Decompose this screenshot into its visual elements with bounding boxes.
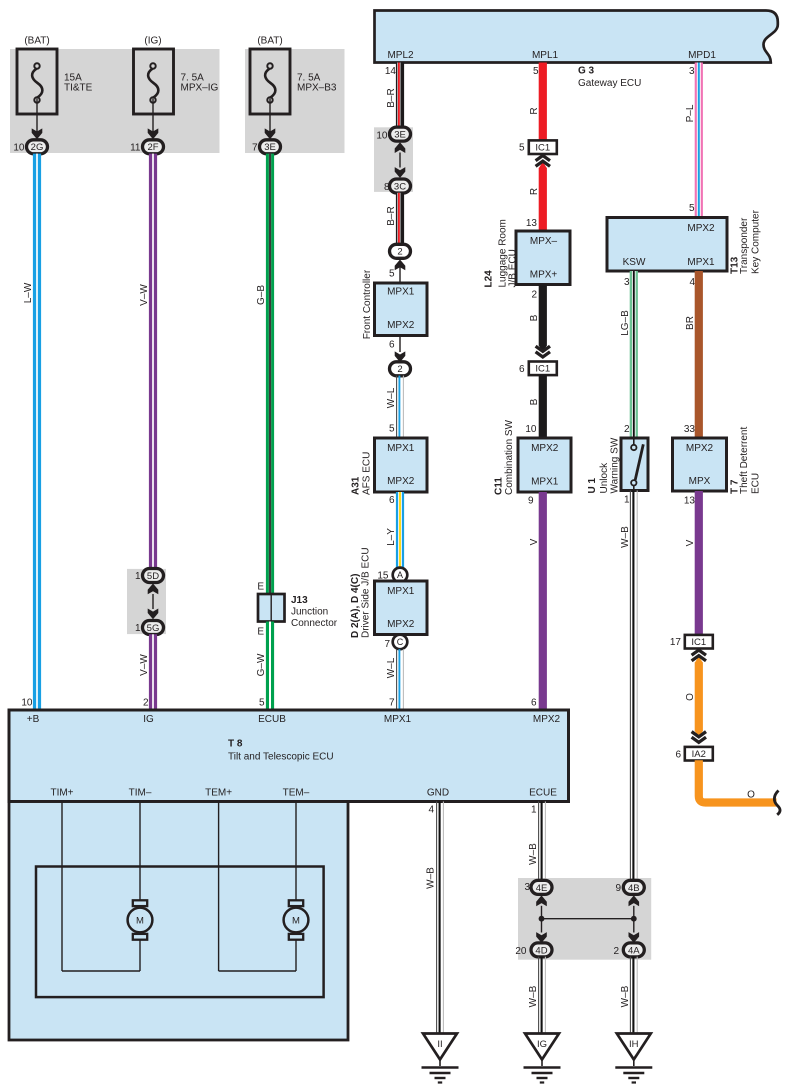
svg-text:1: 1 xyxy=(531,805,537,816)
pin 4 (T13 MPX1) xyxy=(689,277,695,288)
wire B (IC1 to C11) xyxy=(539,375,547,438)
label E above J13 xyxy=(257,582,264,593)
pin 6 (A31) xyxy=(389,495,395,506)
svg-text:Front Controller: Front Controller xyxy=(362,269,373,339)
svg-text:MPX2: MPX2 xyxy=(687,223,715,234)
svg-text:10: 10 xyxy=(21,698,33,709)
junction connector J13 xyxy=(258,594,285,622)
svg-text:1: 1 xyxy=(135,623,141,634)
svg-text:MPX2: MPX2 xyxy=(387,619,415,630)
fuse 15A TI&TE xyxy=(17,49,57,114)
svg-text:R: R xyxy=(529,107,540,114)
svg-text:W–L: W–L xyxy=(386,657,397,678)
svg-text:ECUB: ECUB xyxy=(258,714,286,725)
svg-text:R: R xyxy=(529,188,540,195)
svg-text:IA2: IA2 xyxy=(692,749,706,760)
svg-text:17: 17 xyxy=(670,637,682,648)
svg-text:MPX2: MPX2 xyxy=(387,476,415,487)
label E below J13 xyxy=(257,627,264,638)
svg-text:B: B xyxy=(529,314,540,321)
ground II xyxy=(422,1034,459,1083)
label L-Y xyxy=(386,528,397,546)
pin 33 (T7) xyxy=(684,424,696,435)
svg-text:W–B: W–B xyxy=(426,867,437,889)
fuse block background band (left) xyxy=(10,49,220,153)
label C11 Combination SW xyxy=(494,419,516,495)
label A31 AFS ECU xyxy=(351,452,373,495)
svg-text:LG–B: LG–B xyxy=(620,310,631,336)
pin 10 (C11) xyxy=(525,424,537,435)
svg-text:MPX1: MPX1 xyxy=(384,714,412,725)
ground IG xyxy=(524,1034,561,1083)
svg-text:4: 4 xyxy=(689,277,695,288)
wire L-Y (A31 to circle A) xyxy=(396,492,404,568)
svg-text:TIM+: TIM+ xyxy=(50,788,73,799)
continuation squiggle (O wire) xyxy=(774,791,780,815)
wire B-R (3C to oval 2) xyxy=(399,193,400,245)
svg-text:Theft Deterrent: Theft Deterrent xyxy=(739,427,750,494)
label B-R lower xyxy=(386,206,397,225)
label T8 Tilt and Telescopic ECU xyxy=(228,739,334,763)
link 4E to 4D with arrows xyxy=(536,895,547,943)
label 15A TI&TE xyxy=(64,73,93,94)
wire W-B (4A to ground IH) xyxy=(630,957,637,1034)
svg-text:5G: 5G xyxy=(147,623,160,634)
svg-text:5: 5 xyxy=(389,424,395,435)
label W-B (GND) xyxy=(426,867,437,889)
label V (column 5) xyxy=(529,538,540,545)
pin 7 (circle C) xyxy=(384,639,390,650)
svg-text:Key Computer: Key Computer xyxy=(751,209,762,274)
svg-text:M: M xyxy=(136,916,144,927)
wire G-B (3E to J13) xyxy=(266,154,274,594)
svg-text:MPX–IG: MPX–IG xyxy=(181,83,219,94)
pin 11 (2F) xyxy=(130,142,141,153)
svg-text:MPX2: MPX2 xyxy=(686,443,714,454)
svg-text:C: C xyxy=(397,637,404,647)
svg-text:MPX+: MPX+ xyxy=(530,270,558,281)
svg-text:J13: J13 xyxy=(291,595,308,606)
wire O (chevrons to IA2) xyxy=(695,662,703,737)
pin 6 (Front Controller) xyxy=(389,340,395,351)
svg-text:4B: 4B xyxy=(628,883,640,894)
svg-text:4E: 4E xyxy=(536,883,548,894)
svg-text:3E: 3E xyxy=(394,130,406,141)
svg-text:10: 10 xyxy=(525,424,537,435)
pin 7 (3E fuse) xyxy=(252,142,258,153)
svg-text:MPX1: MPX1 xyxy=(387,443,415,454)
svg-text:IC1: IC1 xyxy=(691,637,706,648)
svg-text:13: 13 xyxy=(526,218,538,229)
svg-text:G–W: G–W xyxy=(256,653,267,676)
svg-text:Combination SW: Combination SW xyxy=(504,419,515,495)
pin 3 (T13 KSW) xyxy=(624,277,630,288)
ground IH xyxy=(615,1034,652,1083)
label B-R upper xyxy=(386,88,397,107)
pin 1 (U1) xyxy=(624,495,630,506)
label B upper xyxy=(529,314,540,321)
label W-B (4A) xyxy=(620,985,631,1007)
wire W-L (circle C to T8 MPX1) xyxy=(397,649,404,711)
chevrons down into IA2 xyxy=(692,732,706,743)
svg-text:G–B: G–B xyxy=(256,285,267,305)
wire TEM+ to motor M2 xyxy=(219,802,296,972)
arrows between 3E and 3C xyxy=(395,142,406,178)
svg-text:B–R: B–R xyxy=(386,206,397,225)
label R lower xyxy=(529,188,540,195)
pin 10 (3E) xyxy=(376,130,388,141)
svg-text:L24: L24 xyxy=(484,270,495,288)
svg-text:3: 3 xyxy=(689,66,695,77)
label T13 Transponder Key Computer xyxy=(730,209,762,274)
chevrons up into IC1 right xyxy=(692,650,706,663)
svg-text:7: 7 xyxy=(389,698,395,709)
svg-text:10: 10 xyxy=(13,142,25,153)
connector 4D xyxy=(531,943,552,957)
pin 1 (5D) xyxy=(135,571,141,582)
ECU C11 Combination SW box xyxy=(518,438,571,492)
svg-text:3C: 3C xyxy=(394,181,406,192)
label W-L upper xyxy=(386,387,397,408)
connector 2 (lower) xyxy=(390,362,411,376)
chevrons up into IC1 xyxy=(536,156,550,169)
svg-text:A31: A31 xyxy=(351,476,362,495)
label W-L lower xyxy=(386,657,397,678)
connector IC1 (right) xyxy=(685,635,713,649)
wire V (C11 to T8 MPX2) xyxy=(539,492,547,711)
svg-text:4A: 4A xyxy=(628,945,640,956)
svg-text:Warning SW: Warning SW xyxy=(610,437,621,493)
svg-text:ECUE: ECUE xyxy=(529,788,557,799)
connector 4B xyxy=(623,880,644,894)
svg-text:TEM–: TEM– xyxy=(283,788,310,799)
svg-text:5: 5 xyxy=(389,269,395,280)
ECU A31 AFS ECU box xyxy=(375,438,428,492)
label O vertical xyxy=(685,693,696,701)
svg-text:(BAT): (BAT) xyxy=(24,36,49,47)
pin 5 (G3 MPL1) xyxy=(533,66,539,77)
svg-text:6: 6 xyxy=(531,698,537,709)
svg-text:20: 20 xyxy=(515,946,527,957)
wire fuse2 to 2F with arrow xyxy=(148,99,159,140)
pin 5 (T8 ECUB) xyxy=(259,698,265,709)
wire V-W (2F to 5D) xyxy=(149,154,157,569)
svg-text:4D: 4D xyxy=(535,945,547,956)
svg-text:TIM–: TIM– xyxy=(129,788,152,799)
label LG-B xyxy=(620,310,631,336)
pin 4 (T8 GND) xyxy=(428,805,434,816)
label P-L xyxy=(685,104,696,122)
svg-text:C11: C11 xyxy=(494,477,505,495)
pin 6 (IC1 mid) xyxy=(519,364,525,375)
ECU T13 Transponder Key Computer box xyxy=(607,218,727,272)
svg-text:MPX1: MPX1 xyxy=(531,477,559,488)
svg-text:2: 2 xyxy=(143,698,149,709)
connector 2G xyxy=(27,140,48,154)
svg-text:IH: IH xyxy=(629,1039,639,1050)
svg-text:W–L: W–L xyxy=(386,387,397,408)
inner motor assembly rect xyxy=(36,867,324,998)
svg-text:10: 10 xyxy=(376,130,388,141)
label W-B (4D) xyxy=(528,985,539,1007)
svg-text:6: 6 xyxy=(389,495,395,506)
motor M2 (telescopic) xyxy=(284,900,309,939)
svg-text:D 2(A), D 4(C): D 2(A), D 4(C) xyxy=(350,574,361,638)
svg-text:J/B ECU: J/B ECU xyxy=(508,249,519,287)
wire V (T7 MPX to IC1) xyxy=(695,491,703,635)
label G-B xyxy=(256,285,267,305)
svg-text:Gateway ECU: Gateway ECU xyxy=(578,78,641,89)
ECU G3 Gateway ECU box xyxy=(375,11,778,63)
wire with down arrow (FC to oval 2) xyxy=(395,336,406,363)
pin 10 (2G) xyxy=(13,142,25,153)
pin 14 (G3 MPL2) xyxy=(385,66,397,77)
pin 5 (A31) xyxy=(389,424,395,435)
fuse 7.5A MPX-B3 xyxy=(250,49,290,114)
svg-text:MPX–B3: MPX–B3 xyxy=(297,83,337,94)
label 7.5A MPX-IG xyxy=(181,73,219,94)
svg-text:6: 6 xyxy=(675,749,681,760)
connector IA2 xyxy=(685,747,713,761)
svg-text:5: 5 xyxy=(689,203,695,214)
connector 5D xyxy=(143,569,164,583)
label R upper xyxy=(529,107,540,114)
svg-text:MPX2: MPX2 xyxy=(531,443,559,454)
pin 1 (5G) xyxy=(135,623,141,634)
label V-W upper xyxy=(139,284,150,306)
pin 2 (T8 IG) xyxy=(143,698,149,709)
svg-text:2G: 2G xyxy=(31,142,44,153)
wire TEM- to motor M2 xyxy=(295,802,297,901)
pin 13 (L24) xyxy=(526,218,538,229)
svg-text:W–B: W–B xyxy=(528,843,539,865)
wire with up arrow (FC pin5 to oval 2) xyxy=(395,260,406,284)
svg-text:TEM+: TEM+ xyxy=(205,788,232,799)
connector band 3E/3C xyxy=(374,127,413,192)
wire BR (T13 MPX1 to T7) xyxy=(695,271,703,438)
label G3 Gateway ECU xyxy=(578,66,641,90)
ECU Front Controller box xyxy=(375,283,428,336)
connector 3E xyxy=(390,127,411,141)
arrows between 5D and 5G xyxy=(148,584,159,620)
svg-text:1: 1 xyxy=(135,571,141,582)
wire R (chevrons to L24) xyxy=(539,168,547,231)
connector 2F xyxy=(143,140,164,154)
svg-text:2: 2 xyxy=(624,424,630,435)
svg-text:13: 13 xyxy=(684,496,696,507)
label (BAT) fuse1 xyxy=(24,36,49,47)
svg-text:O: O xyxy=(685,693,696,701)
svg-text:T 8: T 8 xyxy=(228,739,243,750)
svg-text:A: A xyxy=(397,570,403,580)
svg-text:E: E xyxy=(257,627,264,638)
pin 2 (U1) xyxy=(624,424,630,435)
svg-text:7: 7 xyxy=(384,639,390,650)
svg-text:U 1: U 1 xyxy=(587,478,598,494)
pin 8 (3C) xyxy=(384,182,390,193)
wire W-B (U1 to 4B) xyxy=(630,491,637,881)
svg-text:W–B: W–B xyxy=(620,526,631,548)
node A xyxy=(393,568,408,583)
svg-text:TI&TE: TI&TE xyxy=(64,83,93,94)
link 4B to 4A with arrows xyxy=(629,895,640,943)
label O horizontal xyxy=(747,790,755,801)
svg-text:IG: IG xyxy=(143,714,154,725)
svg-text:KSW: KSW xyxy=(623,257,646,268)
svg-text:MPX2: MPX2 xyxy=(533,714,561,725)
svg-text:V: V xyxy=(685,539,696,546)
pin 15 (circle A) xyxy=(377,571,389,582)
wire fuse1 to 2G with arrow xyxy=(32,99,43,140)
svg-text:5D: 5D xyxy=(147,571,159,582)
label V (column 7) xyxy=(685,539,696,546)
pin 3 (4E) xyxy=(524,882,530,893)
connector IC1 (top) xyxy=(529,140,557,154)
svg-text:2: 2 xyxy=(397,247,402,258)
junction dot right xyxy=(631,916,637,922)
wire B (L24 to chevrons) xyxy=(539,285,547,353)
svg-text:2F: 2F xyxy=(147,142,158,153)
svg-text:L–Y: L–Y xyxy=(386,528,397,546)
svg-text:6: 6 xyxy=(519,364,525,375)
wire LG-B (KSW to U1) xyxy=(630,271,638,438)
svg-text:AFS ECU: AFS ECU xyxy=(362,452,373,495)
T8 motor compartment box xyxy=(9,802,569,1041)
svg-text:II: II xyxy=(437,1039,442,1050)
svg-text:4: 4 xyxy=(428,805,434,816)
svg-text:11: 11 xyxy=(130,142,141,153)
label U1 Unlock Warning SW xyxy=(587,437,621,493)
pin 20 (4D) xyxy=(515,946,527,957)
pin 9 (C11) xyxy=(528,496,534,507)
svg-text:+B: +B xyxy=(27,714,40,725)
svg-text:9: 9 xyxy=(528,496,534,507)
pin 1 (T8 ECUE) xyxy=(531,805,537,816)
label V-W lower xyxy=(139,654,150,676)
wire W-B (GND to ground II) xyxy=(437,802,444,1034)
svg-text:14: 14 xyxy=(385,66,397,77)
label B lower xyxy=(529,398,540,405)
wire B-R (G3 MPL2 to 3E) xyxy=(399,63,400,128)
pin 13 (T7) xyxy=(684,496,696,507)
connector 4A xyxy=(623,943,644,957)
label W-B (ECUE) xyxy=(528,843,539,865)
label L-W xyxy=(23,282,34,303)
svg-text:B–R: B–R xyxy=(386,88,397,107)
motor M1 (tilt) xyxy=(128,900,153,939)
svg-text:IC1: IC1 xyxy=(535,364,550,375)
svg-text:2: 2 xyxy=(531,290,537,301)
svg-text:Transponder: Transponder xyxy=(739,217,750,274)
ECU L24 Luggage Room J/B ECU box xyxy=(516,231,570,285)
pin 6 (T8 MPX2) xyxy=(531,698,537,709)
svg-text:MPX1: MPX1 xyxy=(687,257,715,268)
svg-text:MPD1: MPD1 xyxy=(688,50,716,61)
svg-text:33: 33 xyxy=(684,424,696,435)
svg-text:1: 1 xyxy=(624,495,630,506)
pin 17 (IC1 right) xyxy=(670,637,682,648)
wire O elbow to page edge xyxy=(699,760,777,802)
label L24 Luggage Room J/B ECU xyxy=(484,219,519,287)
svg-text:9: 9 xyxy=(615,883,621,894)
pin 3 (G3 MPD1) xyxy=(689,66,695,77)
svg-text:P–L: P–L xyxy=(685,104,696,122)
wire TIM- to motor M1 xyxy=(139,802,141,901)
junction dot left xyxy=(539,916,545,922)
svg-text:7: 7 xyxy=(252,142,258,153)
svg-text:W–B: W–B xyxy=(620,985,631,1007)
wire V-W (5G to T8 IG) xyxy=(149,634,157,711)
connector 5G xyxy=(143,621,164,635)
label BR xyxy=(685,316,696,330)
svg-text:GND: GND xyxy=(427,788,449,799)
svg-text:MPX–: MPX– xyxy=(530,236,558,247)
connector 4E xyxy=(531,880,552,894)
svg-text:MPX1: MPX1 xyxy=(387,586,415,597)
label T7 Theft Deterrent ECU xyxy=(730,427,762,494)
svg-text:B: B xyxy=(529,398,540,405)
crossover wire 4E-4B xyxy=(542,918,634,920)
svg-text:IC1: IC1 xyxy=(535,143,550,154)
pin 5 (Front Controller) xyxy=(389,269,395,280)
label Front Controller xyxy=(362,269,373,339)
svg-text:Connector: Connector xyxy=(291,618,338,629)
connector 3E (fuse) xyxy=(260,140,281,154)
wire G-W (J13 to T8 ECUB) xyxy=(266,622,274,712)
svg-text:G 3: G 3 xyxy=(578,66,595,77)
svg-text:2: 2 xyxy=(613,946,619,957)
node C xyxy=(393,635,408,650)
connector band 5D/5G xyxy=(127,569,166,634)
svg-text:2: 2 xyxy=(397,364,402,375)
pin 7 (T8 MPX1) xyxy=(389,698,395,709)
pin 6 (IA2) xyxy=(675,749,681,760)
ECU T8 Tilt and Telescopic ECU header box xyxy=(9,710,569,802)
svg-text:V: V xyxy=(529,538,540,545)
svg-text:5: 5 xyxy=(519,143,525,154)
svg-text:BR: BR xyxy=(685,316,696,330)
wire R (G3 MPL1 to IC1) xyxy=(539,63,547,141)
wire W-B (ECUE to 4E) xyxy=(539,802,546,881)
svg-text:Driver Side J/B ECU: Driver Side J/B ECU xyxy=(361,547,372,638)
pin 2 (4A) xyxy=(613,946,619,957)
svg-text:(IG): (IG) xyxy=(144,36,161,47)
svg-text:6: 6 xyxy=(389,340,395,351)
svg-text:V–W: V–W xyxy=(139,654,150,676)
label 7.5A MPX-B3 xyxy=(297,73,337,94)
svg-text:Junction: Junction xyxy=(291,607,328,618)
wire TIM+ to motor M1 xyxy=(62,802,140,972)
label (IG) fuse2 xyxy=(144,36,161,47)
wire W-L (oval 2 to A31) xyxy=(397,376,404,438)
pin 5 (IC1 top) xyxy=(519,143,525,154)
svg-text:ECU: ECU xyxy=(751,473,762,494)
svg-text:5: 5 xyxy=(533,66,539,77)
fuse block background band (MPX-B3) xyxy=(245,49,345,153)
svg-text:MPX2: MPX2 xyxy=(387,320,415,331)
ECU T7 Theft Deterrent ECU box xyxy=(673,438,727,491)
label W-B (U1 column) xyxy=(620,526,631,548)
pin 5 (T13 MPX2) xyxy=(689,203,695,214)
svg-text:MPL2: MPL2 xyxy=(387,50,414,61)
pin 10 (T8 +B) xyxy=(21,698,33,709)
label (BAT) fuse3 xyxy=(257,36,282,47)
svg-text:MPL1: MPL1 xyxy=(532,50,559,61)
svg-text:3: 3 xyxy=(624,277,630,288)
label D2 D4 Driver Side J/B ECU xyxy=(350,547,372,638)
switch U1 Unlock Warning SW xyxy=(621,438,648,491)
connector band 4E/4B/4D/4A xyxy=(518,878,651,960)
